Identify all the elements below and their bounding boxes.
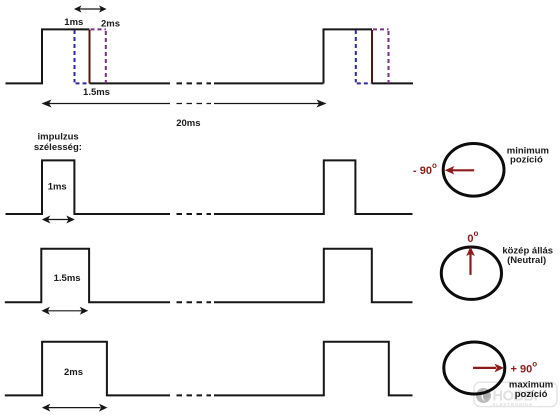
servo dial circle (maximum) (444, 342, 505, 394)
svg-text:0o: 0o (467, 229, 478, 245)
svg-text:+ 90o: + 90o (511, 360, 538, 376)
servo dial circle (minimum) (443, 144, 504, 197)
svg-text:1ms: 1ms (64, 17, 83, 28)
arrow 1ms-2ms range (top small double arrow) (74, 5, 107, 12)
wire row2 baseline + pulse2 (214, 160, 413, 214)
svg-text:20ms: 20ms (176, 118, 200, 129)
svg-text:(Neutral): (Neutral) (507, 255, 546, 266)
wire row2 waveform (1ms pulse) (6, 160, 171, 214)
wire row1 pulse1 1ms dashed blue (75, 30, 90, 83)
wire row3 baseline dashed middle (177, 301, 212, 303)
wire row1 pulse2 1ms dashed blue (356, 30, 372, 83)
arrow servo minimum (red, pointing left) (445, 166, 474, 175)
wire row3 baseline + pulse2 (214, 249, 413, 303)
wire row1 baseline after pulse2 (372, 82, 413, 84)
servo dial circle (neutral) (441, 247, 501, 299)
wire row1 pulse1 falling edge 1.5ms (maroon) (89, 30, 91, 83)
arrow servo maximum (red, pointing right) (473, 364, 504, 373)
svg-text:pozíció: pozíció (510, 155, 543, 166)
wire row1 baseline before pulse2 (214, 82, 324, 84)
arrow row4 pulse width (42, 404, 108, 412)
wire row3 waveform (1.5ms pulse) (5, 249, 170, 303)
svg-text:2ms: 2ms (101, 19, 120, 30)
svg-text:1.5ms: 1.5ms (83, 87, 110, 98)
arrow servo neutral (red, pointing up) (466, 247, 475, 275)
wire row1 baseline dashed middle (177, 82, 212, 84)
svg-text:1.5ms: 1.5ms (54, 273, 81, 284)
wire row4 baseline dashed middle (177, 394, 212, 396)
wire row1 baseline after pulse1 (90, 82, 171, 84)
wire row1 pulse2 falling edge 1.5ms (maroon) (371, 30, 373, 83)
svg-text:szélesség:: szélesség: (34, 142, 82, 153)
svg-text:ELEKTRONIKA: ELEKTRONIKA (493, 402, 534, 407)
arrow row3 pulse width (41, 307, 88, 315)
arrow 20ms period (double arrow) (42, 100, 327, 108)
watermark logo (bottom right) (474, 382, 557, 407)
wire row1 pulse2 2ms dashed purple (373, 29, 389, 83)
arrow row2 pulse width (42, 216, 75, 224)
wire row4 waveform (2ms pulse) (5, 342, 170, 396)
svg-text:pozíció: pozíció (515, 389, 548, 400)
svg-text:impulzus: impulzus (38, 132, 79, 143)
wire row1 pulse2 rise and top (324, 29, 373, 83)
wire row2 baseline dashed middle (177, 213, 212, 215)
wire row4 baseline + pulse2 (214, 342, 413, 396)
wire row1 baseline left + pulse1 rise and top (6, 29, 90, 83)
svg-text:1ms: 1ms (48, 181, 67, 192)
wire row1 pulse1 2ms dashed purple (91, 29, 106, 83)
svg-text:2ms: 2ms (64, 367, 83, 378)
svg-text:- 90o: - 90o (413, 161, 437, 177)
